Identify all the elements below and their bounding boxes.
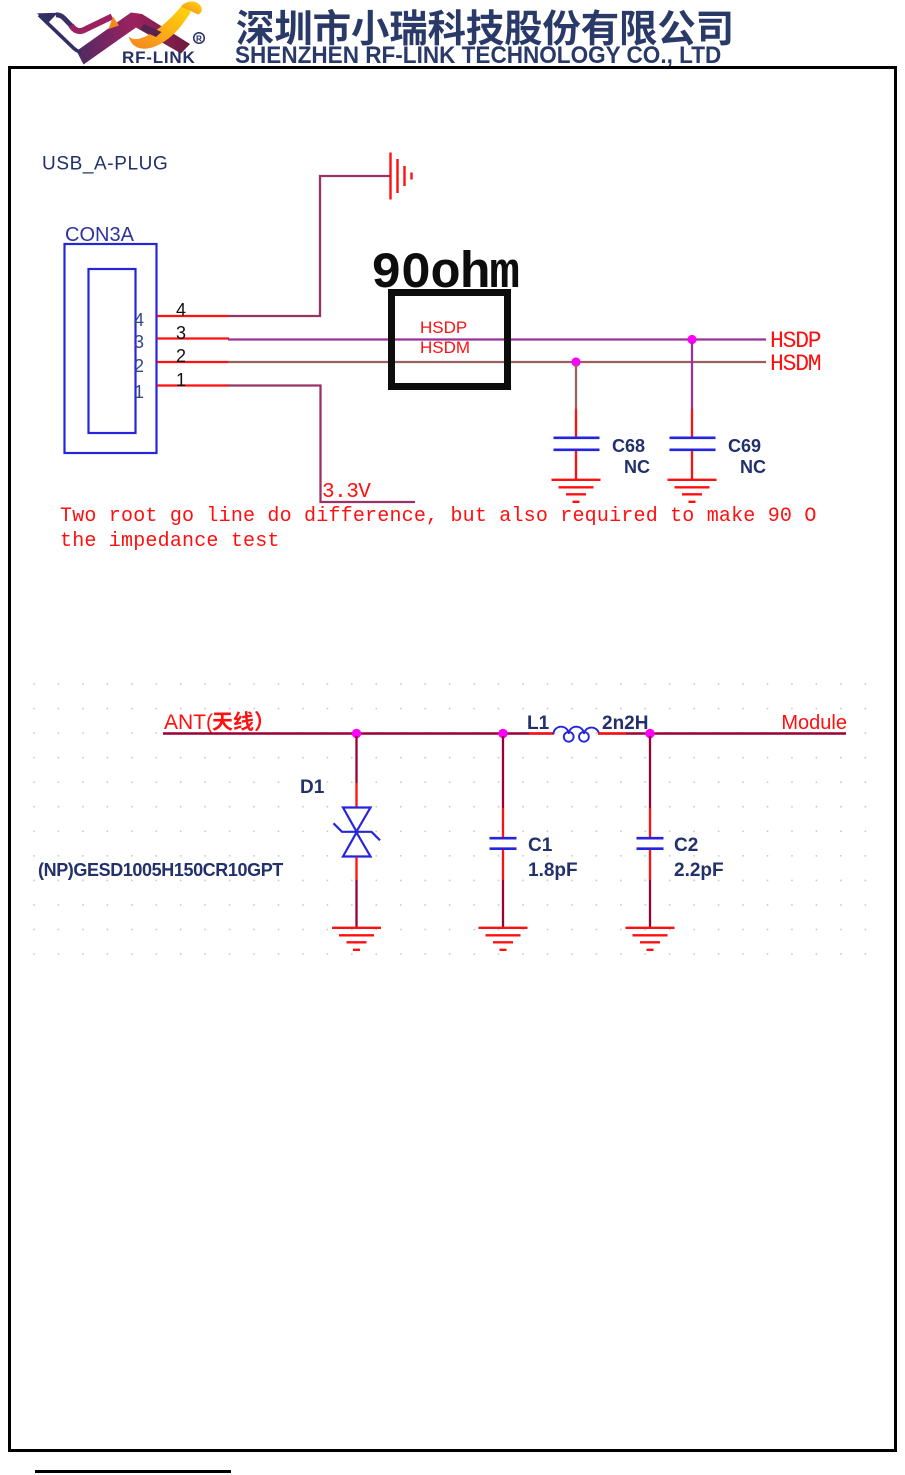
TVS diode D1 xyxy=(334,808,381,857)
wire pin1 to 3.3V xyxy=(228,386,415,503)
svg-text:2n2H: 2n2H xyxy=(602,713,648,734)
svg-text:2.2pF: 2.2pF xyxy=(674,860,724,881)
junction C1 xyxy=(498,729,507,738)
wire HSDM to C68 xyxy=(575,364,577,409)
svg-text:HSDM: HSDM xyxy=(420,338,470,357)
ground (C1) xyxy=(479,928,528,950)
pin 3 stub xyxy=(157,337,229,339)
wire ANT to C2 xyxy=(649,736,651,808)
svg-text:CON3A: CON3A xyxy=(65,224,135,246)
svg-text:1.8pF: 1.8pF xyxy=(528,860,578,881)
company name (Chinese) xyxy=(0,0,905,70)
wire ANT to C1 xyxy=(502,736,504,808)
ground (D1) xyxy=(332,928,381,950)
footer rule xyxy=(35,1470,231,1473)
svg-text:NC: NC xyxy=(624,457,650,477)
ground (C2) xyxy=(626,928,675,950)
svg-text:Two root go line do difference: Two root go line do difference, but also… xyxy=(60,505,817,528)
ground (C68) xyxy=(552,480,601,502)
net ANT wire right xyxy=(598,732,846,734)
logo RF-LINK xyxy=(30,0,245,70)
svg-text:D1: D1 xyxy=(300,777,325,798)
pin 4 stub xyxy=(157,315,229,317)
svg-text:C69: C69 xyxy=(728,436,761,456)
wire ANT to D1 xyxy=(355,736,357,783)
port label ANT xyxy=(164,711,261,734)
svg-text:(NP)GESD1005H150CR10GPT: (NP)GESD1005H150CR10GPT xyxy=(38,860,283,880)
capacitor C68 xyxy=(554,409,600,479)
svg-text:L1: L1 xyxy=(527,713,550,734)
net ANT wire left xyxy=(163,732,554,734)
svg-text:C2: C2 xyxy=(674,835,698,856)
capacitor C2 xyxy=(637,808,664,880)
inductor L1 xyxy=(554,727,600,742)
L1 pin left xyxy=(529,732,554,734)
ground (C69) xyxy=(668,480,717,502)
junction HSDP/C69 xyxy=(687,335,696,344)
junction C2/L1 xyxy=(645,729,654,738)
junction D1 xyxy=(352,729,361,738)
svg-text:Module: Module xyxy=(781,712,847,734)
svg-text:NC: NC xyxy=(740,457,766,477)
svg-text:HSDM: HSDM xyxy=(770,351,821,377)
wire C2 to GND xyxy=(649,880,651,927)
svg-text:2: 2 xyxy=(134,356,144,376)
svg-text:1: 1 xyxy=(176,370,186,390)
D1 pin bottom xyxy=(355,857,357,880)
svg-text:C68: C68 xyxy=(612,436,645,456)
L1 pin right xyxy=(598,732,626,734)
company name (English) xyxy=(235,42,750,70)
svg-text:90ohm: 90ohm xyxy=(371,246,519,303)
wire HSDP to C69 xyxy=(691,342,693,409)
svg-text:1: 1 xyxy=(134,382,144,402)
connector CON3A xyxy=(65,244,157,453)
pin 1 stub xyxy=(157,384,229,386)
svg-text:3: 3 xyxy=(134,332,144,352)
svg-text:4: 4 xyxy=(134,310,144,330)
svg-text:C1: C1 xyxy=(528,835,553,856)
svg-text:USB_A-PLUG: USB_A-PLUG xyxy=(42,154,168,175)
svg-text:3.3V: 3.3V xyxy=(322,481,371,504)
wire D1 to GND xyxy=(355,880,357,927)
svg-text:2: 2 xyxy=(176,346,186,366)
svg-text:HSDP: HSDP xyxy=(420,318,467,337)
net HSDP wire xyxy=(228,338,766,340)
pin 2 stub xyxy=(157,361,229,363)
D1 pin top xyxy=(355,783,357,807)
ground (shield) xyxy=(391,153,412,200)
svg-text:3: 3 xyxy=(176,323,186,343)
capacitor C69 xyxy=(670,409,716,479)
capacitor C1 xyxy=(490,808,517,880)
svg-text:4: 4 xyxy=(176,300,186,320)
wire pin4 to GND xyxy=(228,176,390,316)
net HSDM wire xyxy=(228,361,766,363)
svg-text:ANT(: ANT( xyxy=(164,711,213,734)
junction HSDM/C68 xyxy=(571,357,580,366)
impedance block 90ohm xyxy=(392,293,508,387)
svg-text:the impedance test: the impedance test xyxy=(60,530,280,553)
wire C1 to GND xyxy=(502,880,504,927)
